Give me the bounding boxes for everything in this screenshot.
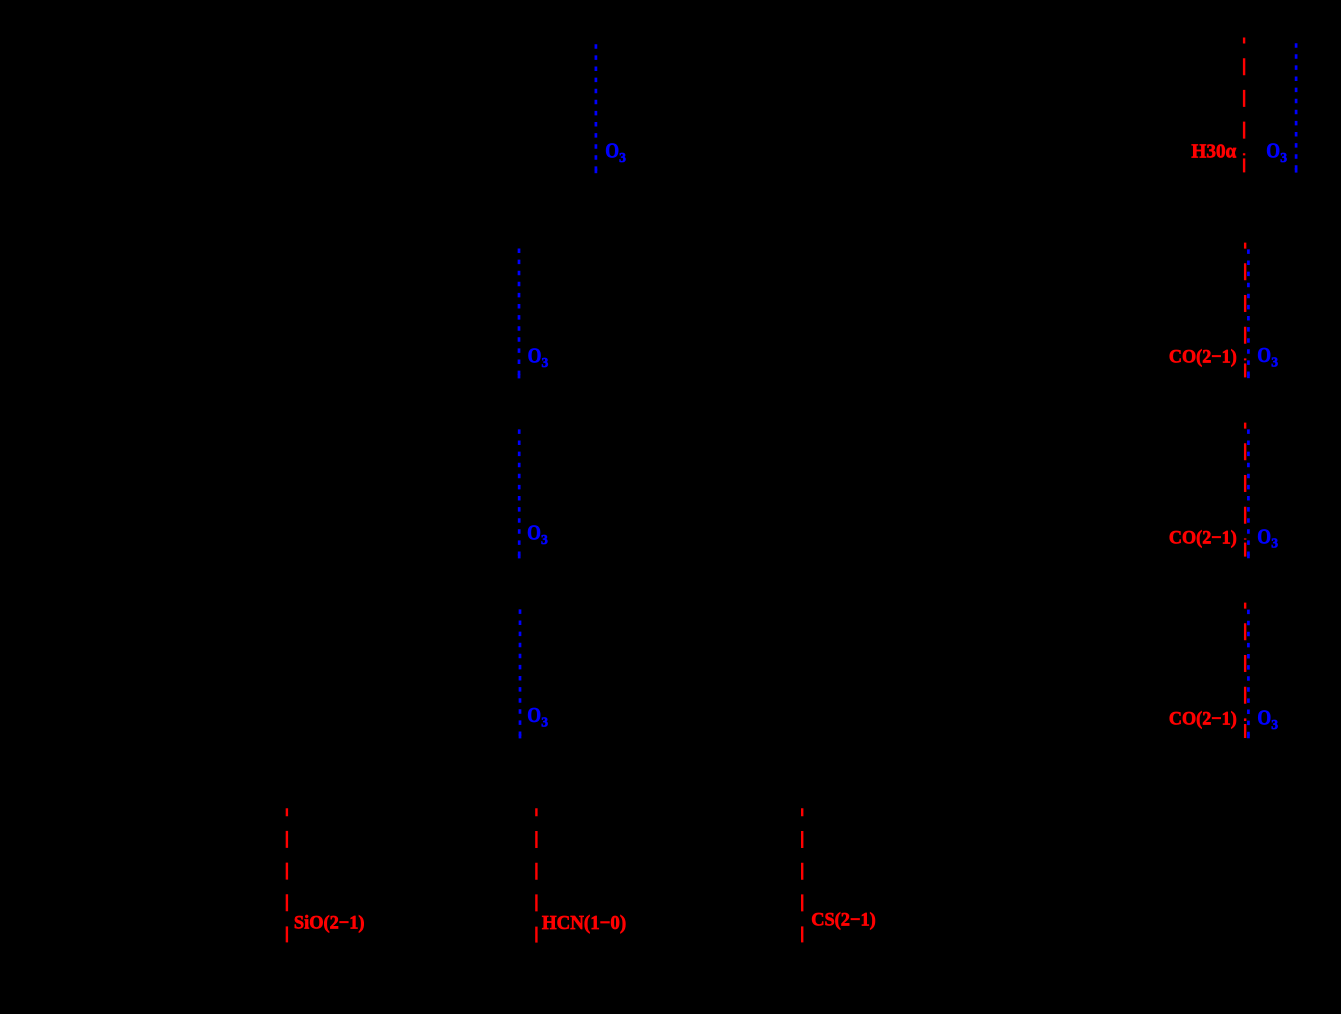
wire: blueA blue dotted vertical line — [595, 44, 598, 173]
svg-text:3: 3 — [1280, 150, 1287, 165]
svg-text:CO(2−1): CO(2−1) — [1169, 528, 1237, 549]
wire: redCs red dashed vertical line — [801, 808, 803, 942]
svg-text:3: 3 — [619, 150, 626, 165]
wire: redR3 red dashed vertical line — [1244, 423, 1246, 557]
wire: blueG blue dotted vertical line — [1247, 429, 1250, 558]
wire: blueF blue dotted vertical line — [1247, 249, 1250, 378]
svg-text:3: 3 — [1271, 717, 1278, 732]
label O3 row1 left — [605, 139, 626, 164]
svg-text:SiO(2−1): SiO(2−1) — [294, 913, 365, 934]
svg-text:3: 3 — [1271, 536, 1278, 551]
svg-text:O: O — [1257, 344, 1271, 367]
svg-text:O: O — [605, 139, 619, 162]
label O3 row2 left — [528, 344, 549, 369]
svg-text:3: 3 — [541, 532, 548, 547]
wire: blueD blue dotted vertical line — [519, 609, 522, 738]
svg-text:O: O — [1266, 140, 1280, 163]
wire: redS red dashed vertical line — [286, 808, 288, 942]
svg-text:3: 3 — [1271, 355, 1278, 370]
svg-text:3: 3 — [541, 715, 548, 730]
svg-text:CS(2−1): CS(2−1) — [811, 910, 876, 931]
svg-text:O: O — [527, 704, 541, 727]
svg-text:O: O — [1257, 525, 1271, 548]
label O3 row3 left — [527, 522, 548, 547]
svg-text:3: 3 — [542, 355, 549, 370]
label O3 row3 right — [1257, 525, 1278, 550]
wire: redHc red dashed vertical line — [535, 808, 537, 942]
label O3 row2 right — [1257, 344, 1278, 369]
wire: blueE blue dotted vertical line — [1295, 43, 1298, 172]
label O3 row1 right — [1266, 140, 1287, 165]
svg-text:CO(2−1): CO(2−1) — [1169, 709, 1237, 730]
svg-text:H30α: H30α — [1191, 141, 1237, 163]
wire: redR4 red dashed vertical line — [1244, 603, 1246, 738]
svg-text:O: O — [1257, 707, 1271, 730]
svg-text:O: O — [528, 344, 542, 367]
wire: blueC blue dotted vertical line — [518, 429, 521, 558]
wire: redR2 red dashed vertical line — [1244, 243, 1246, 378]
wire: blueH blue dotted vertical line — [1247, 610, 1250, 739]
label O3 row4 left — [527, 704, 548, 729]
svg-text:CO(2−1): CO(2−1) — [1169, 347, 1237, 368]
label O3 row4 right — [1257, 707, 1278, 732]
wire: blueB blue dotted vertical line — [518, 249, 521, 379]
wire: redR1 red dashed vertical line — [1243, 38, 1245, 173]
svg-text:HCN(1−0): HCN(1−0) — [542, 912, 626, 934]
svg-text:O: O — [527, 522, 541, 545]
